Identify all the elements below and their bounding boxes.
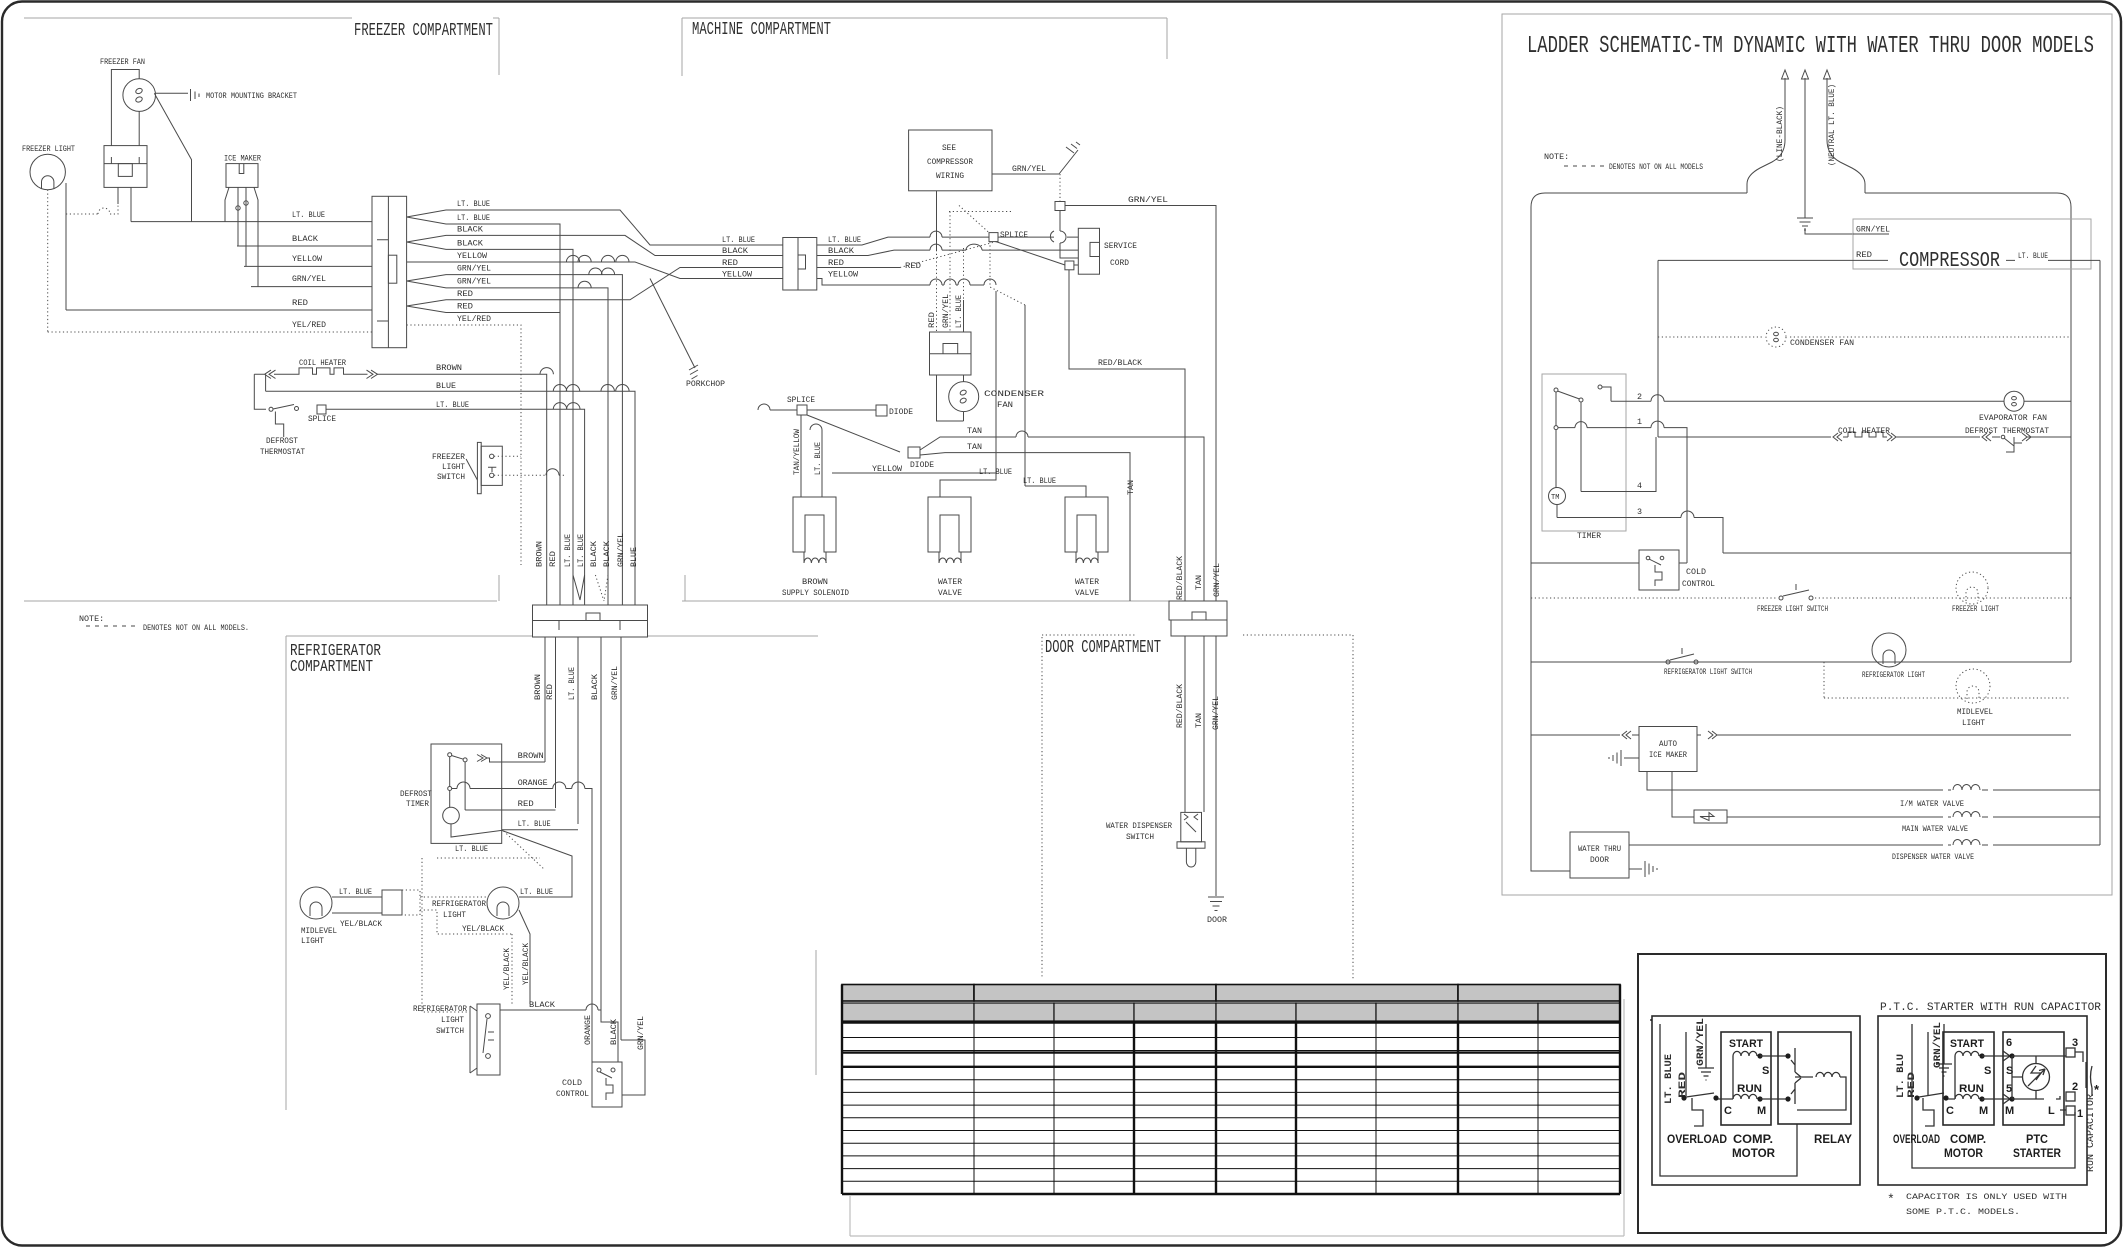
freezer compartment section border: [24, 18, 499, 601]
svg-text:4: 4: [1637, 481, 1642, 491]
relay overload switch: [1681, 1095, 1686, 1100]
machine compartment section border: [682, 18, 1169, 601]
tan/yellow drop from splice: [800, 415, 802, 497]
svg-text:REFRIGERATOR LIGHT SWITCH: REFRIGERATOR LIGHT SWITCH: [1664, 667, 1752, 677]
svg-text:YEL/BLACK: YEL/BLACK: [502, 947, 512, 990]
svg-text:DIODE: DIODE: [910, 460, 934, 470]
freezer light rung (dashed): [1531, 597, 2071, 599]
porkchop diagonal: [650, 279, 695, 369]
svg-text:DOOR COMPARTMENT: DOOR COMPARTMENT: [1045, 638, 1161, 658]
svg-text:BROWN: BROWN: [518, 751, 544, 761]
refrigerator light (ladder): [1872, 633, 1906, 667]
svg-text:GRN/YEL: GRN/YEL: [1856, 225, 1890, 235]
bottom-right outer box: [1638, 954, 2106, 1233]
svg-text:M: M: [1757, 1105, 1766, 1117]
svg-text:THERMOSTAT: THERMOSTAT: [260, 447, 305, 457]
hop arcs on heater wires: [540, 368, 553, 375]
svg-text:LADDER SCHEMATIC-TM DYNAMIC WI: LADDER SCHEMATIC-TM DYNAMIC WITH WATER T…: [1527, 33, 2094, 60]
svg-text:NOTE:: NOTE:: [1544, 152, 1569, 162]
svg-text:OVERLOAD: OVERLOAD: [1893, 1132, 1940, 1146]
svg-text:CONTROL: CONTROL: [1682, 579, 1715, 589]
svg-text:COIL HEATER: COIL HEATER: [1838, 426, 1890, 436]
svg-text:START: START: [1950, 1038, 1984, 1050]
svg-text:REFRIGERATOR: REFRIGERATOR: [432, 899, 486, 909]
svg-text:GRN/YEL: GRN/YEL: [1695, 1018, 1707, 1066]
svg-text:BROWN: BROWN: [436, 363, 462, 373]
cold control: [1639, 550, 1679, 590]
svg-text:DOOR: DOOR: [1207, 915, 1227, 925]
ptc overload switch: [1914, 1095, 1919, 1100]
connector C: [533, 605, 648, 621]
grn/yel wire: [621, 1040, 645, 1095]
door ground: [1208, 897, 1224, 911]
svg-text:TM: TM: [1551, 494, 1559, 502]
wire yel/red dotted: [48, 331, 372, 333]
svg-text:GRN/YEL: GRN/YEL: [457, 264, 491, 274]
ptc wiring rails: [1912, 1024, 2075, 1168]
svg-text:GRN/YEL: GRN/YEL: [292, 274, 326, 284]
svg-text:GRN/YEL: GRN/YEL: [1932, 1022, 1944, 1068]
svg-text:RED: RED: [1677, 1072, 1689, 1098]
svg-text:C: C: [1946, 1105, 1954, 1117]
ground under bus: [1797, 193, 1813, 230]
timer wire orange: [452, 789, 592, 1063]
condenser fan rung: [1658, 336, 2071, 338]
svg-text:LT. BLUE: LT. BLUE: [828, 235, 861, 245]
relay diagram wiring rails: [1660, 1024, 1797, 1176]
svg-text:FREEZER: FREEZER: [432, 452, 465, 462]
connector B: [783, 238, 817, 291]
switched rail: [1657, 260, 1659, 437]
svg-text:LIGHT: LIGHT: [442, 462, 465, 472]
wire grn/yel: [251, 286, 372, 288]
svg-text:LT. BLUE: LT. BLUE: [722, 235, 755, 245]
svg-text:COLD: COLD: [1686, 567, 1706, 577]
svg-text:BLACK: BLACK: [529, 1000, 556, 1010]
grn/yel into compressor: [1805, 228, 1853, 234]
svg-text:LT. BLUE: LT. BLUE: [2018, 251, 2048, 261]
svg-text:BLACK: BLACK: [828, 246, 855, 256]
svg-text:5: 5: [2006, 1083, 2012, 1095]
connector D: [1169, 601, 1227, 620]
vertical below splice with hops: [1060, 211, 1078, 259]
water dispenser switch: [1181, 812, 1202, 841]
fanout wires right of connector A: [407, 210, 783, 245]
diagonal from splice to diode2: [807, 415, 900, 452]
condenser fan: [937, 375, 964, 421]
porkchop ground (top): [1059, 142, 1080, 174]
svg-text:FREEZER LIGHT: FREEZER LIGHT: [22, 144, 75, 154]
table body grid: [842, 1022, 1620, 1194]
relay grn/yel ground: [1698, 1068, 1714, 1080]
compressor box: [1853, 219, 2091, 269]
midlevel light: [300, 887, 332, 919]
svg-text:WATER: WATER: [938, 577, 962, 587]
svg-text:YELLOW: YELLOW: [872, 464, 903, 474]
wire black: [237, 245, 372, 247]
svg-text:GRN/YEL: GRN/YEL: [941, 294, 951, 328]
wires below connector C: [544, 637, 546, 762]
ice maker ground: [1609, 750, 1639, 766]
ptc thermistor: [2023, 1064, 2050, 1091]
timer internals: [1554, 388, 1558, 392]
svg-text:LT. BLUE: LT. BLUE: [979, 467, 1012, 477]
svg-text:SEE: SEE: [942, 143, 956, 153]
svg-text:CONDENSER FAN: CONDENSER FAN: [1790, 338, 1854, 348]
i/m water valve rung: [1647, 772, 2100, 791]
table header row 1: [842, 985, 1620, 1002]
wires below connector D: [1184, 636, 1186, 812]
svg-text:TAN: TAN: [1194, 575, 1204, 590]
svg-text:COMP.: COMP.: [1950, 1132, 1986, 1146]
red splice square: [1065, 261, 1074, 270]
left rail: [1531, 207, 1570, 871]
svg-text:P.T.C. STARTER WITH RUN CAPACI: P.T.C. STARTER WITH RUN CAPACITOR: [1880, 1002, 2101, 1014]
svg-text:RED/BLACK: RED/BLACK: [1175, 555, 1185, 600]
svg-text:LT. BLUE: LT. BLUE: [455, 844, 488, 854]
red diagonal to splice square: [996, 242, 1065, 265]
svg-text:FREEZER LIGHT: FREEZER LIGHT: [1952, 604, 1999, 614]
svg-text:LIGHT: LIGHT: [1962, 718, 1985, 728]
svg-text:YEL/RED: YEL/RED: [457, 314, 491, 324]
svg-text:LT. BLUE: LT. BLUE: [567, 667, 577, 700]
svg-text:TAN: TAN: [1194, 713, 1204, 728]
svg-text:(LINE-BLACK): (LINE-BLACK): [1775, 106, 1785, 162]
door wire labels: [1175, 683, 1221, 730]
svg-text:MACHINE COMPARTMENT: MACHINE COMPARTMENT: [692, 20, 831, 40]
svg-text:RED: RED: [548, 551, 558, 567]
table shadow frame: [850, 999, 1624, 1236]
svg-text:S: S: [1762, 1065, 1769, 1077]
svg-text:MIDLEVEL: MIDLEVEL: [301, 926, 337, 936]
wire brown to bundle: [436, 374, 547, 605]
svg-text:RED: RED: [457, 302, 473, 312]
svg-text:TAN: TAN: [967, 426, 982, 436]
timer motor: [1549, 488, 1566, 505]
connector A: [372, 196, 407, 347]
svg-text:BROWN: BROWN: [533, 674, 543, 700]
auto ice maker rung: [1531, 731, 1639, 739]
svg-text:BLACK: BLACK: [609, 1018, 619, 1045]
svg-text:L: L: [2048, 1105, 2055, 1117]
svg-text:BLACK: BLACK: [292, 234, 319, 244]
svg-text:RED: RED: [292, 298, 308, 308]
neutral right rail: [2099, 260, 2101, 845]
svg-text:M: M: [1979, 1105, 1988, 1117]
svg-text:TAN: TAN: [1126, 480, 1136, 495]
inline connector: [382, 890, 402, 915]
svg-text:LIGHT: LIGHT: [441, 1015, 464, 1025]
svg-text:C: C: [1724, 1105, 1732, 1117]
svg-text:FREEZER COMPARTMENT: FREEZER COMPARTMENT: [354, 21, 493, 41]
condenser fan relay box: [930, 332, 972, 375]
grn/yel splice square: [1055, 202, 1065, 211]
svg-text:TIMER: TIMER: [406, 799, 429, 809]
svg-text:YELLOW: YELLOW: [722, 270, 753, 280]
svg-text:YEL/BLACK: YEL/BLACK: [340, 919, 383, 929]
svg-text:1: 1: [2077, 1108, 2083, 1120]
svg-text:RED: RED: [828, 258, 844, 268]
svg-text:WIRING: WIRING: [936, 171, 964, 181]
refrigerator light rung: [1531, 661, 2071, 663]
svg-text:DIODE: DIODE: [889, 407, 913, 417]
svg-text:WATER DISPENSER: WATER DISPENSER: [1106, 821, 1172, 831]
svg-text:OVERLOAD: OVERLOAD: [1667, 1132, 1727, 1146]
svg-text:SERVICE: SERVICE: [1104, 241, 1137, 251]
svg-text:GRN/YEL: GRN/YEL: [1211, 696, 1221, 730]
svg-text:VALVE: VALVE: [1075, 588, 1099, 598]
svg-text:RUN CAPACITOR: RUN CAPACITOR: [2085, 1093, 2097, 1172]
svg-text:FREEZER LIGHT SWITCH: FREEZER LIGHT SWITCH: [1757, 604, 1828, 614]
ladder outer box: [1502, 14, 2112, 895]
neutral feed: [1827, 78, 1865, 193]
red/black drop: [1069, 270, 1185, 601]
ptc labels: [1895, 1022, 1944, 1098]
svg-text:MOTOR: MOTOR: [1944, 1146, 1983, 1160]
housing drop wires: [118, 187, 131, 221]
svg-text:2: 2: [1637, 392, 1642, 402]
red/black label vertical: [1175, 555, 1222, 600]
yellow feed to valve: [832, 473, 996, 497]
condenser fan: [1766, 327, 1786, 347]
red rung into compressor: [1658, 259, 1853, 261]
svg-text:GRN/YEL: GRN/YEL: [1012, 164, 1046, 174]
svg-text:PORKCHOP: PORKCHOP: [686, 379, 725, 389]
relay diagram box: [1652, 1016, 1860, 1185]
svg-text:COMPRESSOR: COMPRESSOR: [1899, 250, 2000, 273]
svg-text:RELAY: RELAY: [1814, 1132, 1852, 1146]
hop arcs on fanout crossings: [578, 255, 591, 262]
line-black feed: [1747, 78, 1785, 193]
svg-text:(NEUTRAL LT. BLUE): (NEUTRAL LT. BLUE): [1827, 84, 1837, 166]
svg-text:SPLICE: SPLICE: [787, 395, 815, 405]
svg-text:MOTOR: MOTOR: [1732, 1146, 1775, 1160]
svg-text:BROWN: BROWN: [802, 577, 828, 587]
ice maker pins: [225, 187, 258, 286]
service cord: [1078, 228, 1099, 274]
svg-text:GRN/YEL: GRN/YEL: [1128, 195, 1168, 205]
diode 2: [908, 447, 920, 458]
svg-text:MAIN WATER VALVE: MAIN WATER VALVE: [1902, 824, 1968, 834]
svg-text:2: 2: [2072, 1081, 2078, 1093]
svg-text:3: 3: [1637, 507, 1642, 517]
cold control: [592, 1062, 622, 1107]
svg-text:EVAPORATOR FAN: EVAPORATOR FAN: [1979, 413, 2047, 423]
svg-text:ORANGE: ORANGE: [583, 1015, 593, 1045]
svg-text:REFRIGERATOR LIGHT: REFRIGERATOR LIGHT: [1862, 670, 1925, 680]
svg-text:SPLICE: SPLICE: [1000, 230, 1028, 240]
svg-text:LIGHT: LIGHT: [443, 910, 466, 920]
timer wire red: [465, 809, 555, 811]
ptc starter diagram box: [1878, 1016, 2087, 1185]
left vertical joining heater wires: [254, 374, 266, 409]
wire blue: [266, 391, 635, 605]
freezer light switch: [477, 442, 481, 493]
water thru door box: [1570, 832, 1629, 878]
midlevel wires: [332, 896, 382, 898]
svg-text:COMP.: COMP.: [1733, 1132, 1773, 1146]
lt.blue feed to valve2: [1025, 486, 1086, 497]
defrost thermostat: [1982, 433, 2000, 441]
evaporator fan rung: [2024, 400, 2071, 402]
ice maker: [226, 164, 258, 188]
svg-text:YELLOW: YELLOW: [457, 251, 488, 261]
svg-text:FREEZER FAN: FREEZER FAN: [100, 57, 145, 67]
svg-text:YEL/BLACK: YEL/BLACK: [521, 942, 531, 985]
svg-text:LIGHT: LIGHT: [301, 936, 324, 946]
comp motor box (ptc diagram): [1943, 1032, 1994, 1125]
ptc grn/yel ground: [1936, 1064, 1952, 1076]
svg-text:TAN: TAN: [967, 442, 982, 452]
relay box (component): [1778, 1032, 1851, 1124]
svg-text:LT. BLUE: LT. BLUE: [813, 442, 823, 475]
svg-text:RED: RED: [545, 684, 555, 700]
splice on lt.blue: [989, 233, 998, 242]
vertical labels at solenoid: [792, 428, 823, 475]
svg-text:YELLOW: YELLOW: [292, 254, 323, 264]
svg-text:*: *: [1887, 1192, 1895, 1207]
svg-text:WATER: WATER: [1075, 577, 1099, 587]
svg-text:RED: RED: [457, 289, 473, 299]
refrigerator light switch: [477, 1004, 500, 1075]
freezer fan motor: [123, 79, 156, 112]
defrost thermostat switch: [269, 407, 273, 411]
svg-text:ORANGE: ORANGE: [518, 778, 548, 788]
timer to light diagonals: [451, 824, 572, 897]
svg-text:BLACK: BLACK: [457, 224, 484, 234]
water valve 1: [928, 497, 971, 552]
brown supply solenoid: [793, 497, 836, 552]
svg-text:LT. BLUE: LT. BLUE: [576, 534, 586, 567]
svg-text:COMPRESSOR: COMPRESSOR: [927, 157, 973, 167]
black wire into service cord: [817, 250, 1078, 255]
wire lt. blue: [131, 221, 372, 223]
freezer fan frame wires: [111, 70, 139, 146]
svg-text:BROWN: BROWN: [535, 541, 545, 567]
svg-text:RED: RED: [1856, 250, 1872, 260]
svg-text:DEFROST THERMOSTAT: DEFROST THERMOSTAT: [1965, 426, 2049, 436]
ptc starter box: [2003, 1032, 2064, 1125]
svg-text:SWITCH: SWITCH: [1126, 832, 1154, 842]
coil heater rung: [1658, 433, 1848, 441]
svg-text:GRN/YEL: GRN/YEL: [610, 666, 620, 700]
water valve 2: [1065, 497, 1108, 552]
wire red: [66, 309, 372, 311]
svg-text:WATER THRU: WATER THRU: [1578, 844, 1621, 854]
auto ice maker box: [1639, 727, 1697, 772]
svg-text:MIDLEVEL: MIDLEVEL: [1957, 707, 1993, 717]
svg-text:LT. BLUE: LT. BLUE: [1023, 476, 1056, 486]
svg-text:NOTE:: NOTE:: [79, 614, 104, 624]
svg-text:M: M: [2005, 1105, 2014, 1117]
bus top: [1545, 193, 2071, 662]
svg-text:S: S: [1984, 1065, 1991, 1077]
svg-text:RED/BLACK: RED/BLACK: [1175, 683, 1185, 728]
svg-text:CONDENSER: CONDENSER: [984, 389, 1044, 399]
svg-text:GRN/YEL: GRN/YEL: [636, 1016, 646, 1050]
run capacitor: [2086, 1062, 2092, 1088]
svg-text:1: 1: [1637, 417, 1642, 427]
dotted net from compressor wiring: [936, 191, 938, 250]
svg-text:BLACK: BLACK: [457, 238, 484, 248]
evaporator fan: [2004, 391, 2024, 411]
svg-text:YELLOW: YELLOW: [828, 270, 859, 280]
freezer light: [30, 154, 65, 189]
svg-text:CORD: CORD: [1110, 258, 1129, 268]
freezer light switch: [1779, 596, 1783, 600]
diode 1: [807, 409, 876, 411]
svg-text:REFRIGERATOR: REFRIGERATOR: [413, 1004, 467, 1014]
see compressor wiring box: [909, 130, 992, 191]
svg-text:RED: RED: [1906, 1072, 1918, 1098]
svg-text:GRN/YEL: GRN/YEL: [1212, 563, 1222, 597]
splice: [317, 405, 326, 414]
svg-text:COLD: COLD: [562, 1078, 582, 1088]
svg-text:SWITCH: SWITCH: [436, 1026, 464, 1036]
motor mounting bracket: [156, 92, 189, 94]
midlevel light (ladder): [1956, 669, 1990, 703]
black wire from switch: [500, 1010, 618, 1062]
yellow wire with hops: [817, 279, 996, 474]
svg-text:BLUE: BLUE: [436, 381, 456, 391]
timer box: [1542, 374, 1626, 531]
wire yel/red dotted drop: [47, 190, 49, 332]
timer wire lt. blue: [502, 829, 578, 831]
svg-text:YEL/BLACK: YEL/BLACK: [462, 924, 505, 934]
lt.blue drop: [821, 430, 823, 497]
svg-text:DEFROST: DEFROST: [266, 436, 298, 446]
midlevel light rung (dashed): [1824, 662, 2071, 698]
labels above condenser relay: [927, 294, 964, 328]
svg-text:MOTOR MOUNTING BRACKET: MOTOR MOUNTING BRACKET: [206, 91, 297, 101]
svg-text:RED: RED: [518, 799, 534, 809]
svg-text:LT. BLUE: LT. BLUE: [457, 199, 490, 209]
svg-text:RED: RED: [927, 312, 937, 328]
wire yellow: [244, 265, 372, 267]
svg-text:CONTROL: CONTROL: [556, 1089, 589, 1099]
svg-text:RUN: RUN: [1737, 1083, 1762, 1095]
lt.blue wire into service cord: [817, 237, 1078, 245]
svg-text:BLACK: BLACK: [722, 246, 749, 256]
wire red drop: [559, 313, 561, 606]
wire lt. blue lower: [326, 409, 585, 605]
grn/yel wire to door: [1065, 206, 1216, 602]
svg-text:STARTER: STARTER: [2013, 1146, 2061, 1160]
svg-text:GRN/YEL: GRN/YEL: [616, 533, 626, 567]
grn/yel to ground antenna: [992, 173, 1059, 175]
svg-text:BLACK: BLACK: [590, 673, 600, 700]
svg-text:VALVE: VALVE: [938, 588, 962, 598]
svg-text:LT. BLUE: LT. BLUE: [518, 819, 551, 829]
door compartment dashed border: [1042, 635, 1353, 979]
dashed wires to refrigerator light: [420, 896, 487, 898]
svg-text:I/M WATER VALVE: I/M WATER VALVE: [1900, 799, 1964, 809]
bundle labels below connector C: [533, 666, 620, 700]
refrigerator light switch (ladder): [1666, 660, 1670, 664]
svg-text:BLUE: BLUE: [629, 547, 639, 567]
water thru door ground: [1629, 861, 1657, 877]
dashed link light to fan housing: [66, 204, 118, 214]
refrigerator compartment section border: [286, 636, 818, 1110]
dashed drop to light switch: [422, 858, 468, 1012]
wire from fan to ice maker: [154, 93, 191, 221]
svg-text:COIL HEATER: COIL HEATER: [299, 358, 346, 368]
svg-text:LT. BLUE: LT. BLUE: [339, 887, 372, 897]
svg-text:ICE MAKER: ICE MAKER: [224, 154, 261, 164]
svg-text:YEL/RED: YEL/RED: [292, 320, 326, 330]
converge wires into connector C: [573, 575, 585, 600]
svg-text:SUPPLY SOLENOID: SUPPLY SOLENOID: [782, 588, 849, 598]
